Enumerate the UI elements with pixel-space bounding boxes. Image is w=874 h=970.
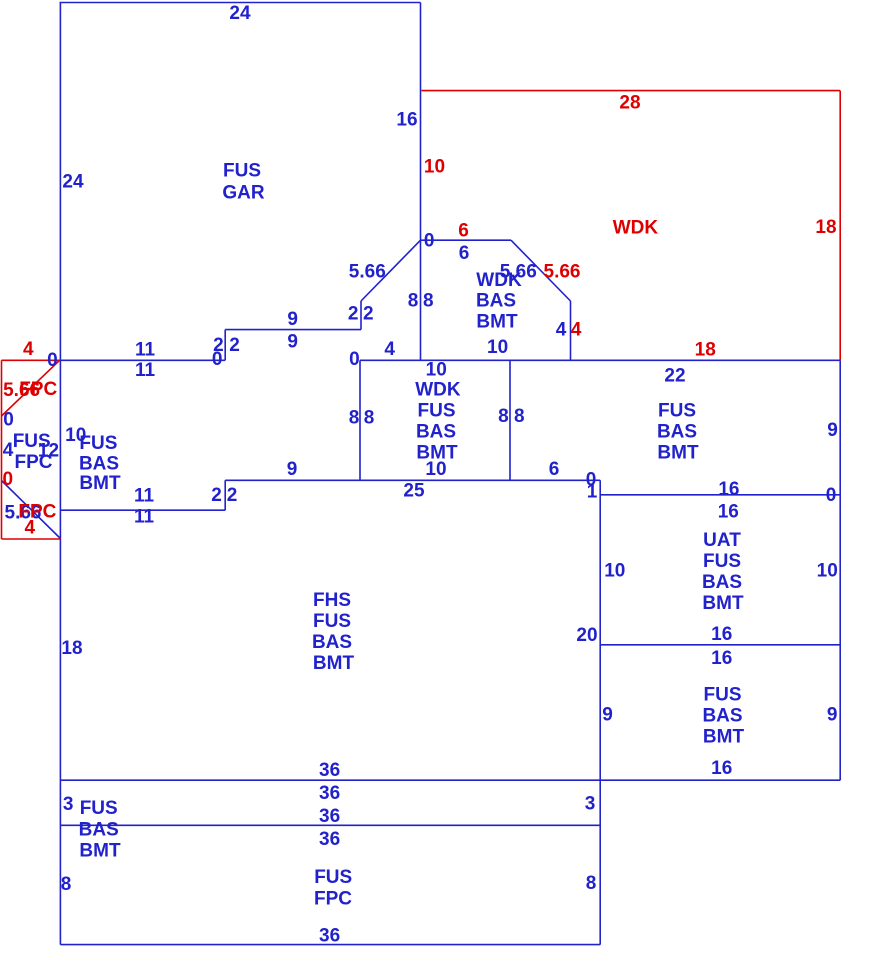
svg-text:2: 2 [363, 304, 374, 325]
svg-text:16: 16 [718, 502, 739, 523]
wire red fpc diagonal [2, 360, 60, 416]
svg-text:BMT: BMT [657, 443, 699, 464]
wire right main vertical [839, 360, 841, 780]
wire uat top horizontal [600, 494, 840, 496]
svg-text:0: 0 [826, 485, 837, 506]
wire garage right vertical [420, 3, 422, 361]
svg-text:8: 8 [514, 406, 525, 427]
svg-text:10: 10 [487, 337, 508, 358]
svg-text:0: 0 [212, 349, 223, 370]
svg-text:0: 0 [3, 410, 14, 431]
wire 11 step horizontal [60, 359, 225, 361]
svg-text:1: 1 [587, 482, 598, 503]
svg-text:BMT: BMT [79, 840, 121, 861]
svg-text:11: 11 [134, 506, 155, 527]
svg-text:8: 8 [586, 873, 597, 894]
svg-text:4: 4 [23, 339, 34, 360]
svg-text:BMT: BMT [313, 653, 355, 674]
svg-text:8: 8 [498, 406, 509, 427]
svg-text:9: 9 [602, 705, 613, 726]
svg-text:36: 36 [319, 760, 340, 781]
svg-text:2: 2 [211, 485, 222, 506]
svg-text:36: 36 [319, 829, 340, 850]
svg-text:FPC: FPC [15, 452, 53, 473]
svg-text:36: 36 [319, 926, 340, 947]
wire red fpc top [2, 359, 60, 361]
svg-text:8: 8 [364, 408, 375, 429]
svg-text:9: 9 [287, 459, 298, 480]
svg-text:10: 10 [425, 459, 446, 480]
svg-text:WDK: WDK [415, 380, 461, 401]
svg-text:4: 4 [571, 320, 582, 341]
wire red wdk right vertical [839, 91, 841, 361]
svg-text:5.66: 5.66 [544, 262, 581, 283]
svg-text:FUS: FUS [658, 400, 696, 421]
svg-text:FUS: FUS [313, 611, 351, 632]
svg-text:16: 16 [711, 758, 732, 779]
wire 9 step horizontal [225, 329, 361, 331]
svg-text:FUS: FUS [703, 551, 741, 572]
svg-text:2: 2 [348, 304, 359, 325]
svg-text:BMT: BMT [703, 727, 745, 748]
wire red fpc bottom [2, 538, 61, 540]
svg-text:FPC: FPC [19, 379, 57, 400]
svg-text:WDK: WDK [476, 270, 522, 291]
svg-text:4: 4 [3, 440, 14, 461]
svg-text:GAR: GAR [222, 183, 265, 204]
svg-text:BAS: BAS [312, 632, 352, 653]
svg-text:BMT: BMT [79, 473, 121, 494]
svg-text:6: 6 [458, 221, 469, 242]
svg-text:FUS: FUS [223, 161, 261, 182]
svg-text:0: 0 [424, 231, 435, 252]
svg-text:28: 28 [619, 93, 640, 114]
svg-text:36: 36 [319, 806, 340, 827]
svg-text:10: 10 [817, 560, 838, 581]
svg-text:9: 9 [827, 705, 838, 726]
svg-text:FUS: FUS [704, 684, 742, 705]
svg-text:0: 0 [47, 350, 58, 371]
wire fpc blue diagonal [2, 481, 61, 539]
svg-text:0: 0 [3, 469, 14, 490]
svg-text:9: 9 [287, 309, 298, 330]
wire red wdk top [422, 90, 841, 92]
svg-text:10: 10 [424, 157, 445, 178]
wire 2 lower step [224, 480, 226, 510]
svg-text:24: 24 [62, 172, 84, 193]
svg-text:22: 22 [664, 365, 685, 386]
svg-text:10: 10 [604, 560, 625, 581]
wire wdk deck right vertical [570, 301, 572, 360]
svg-text:BAS: BAS [416, 422, 456, 443]
svg-text:4: 4 [556, 320, 567, 341]
svg-text:5.66: 5.66 [349, 262, 386, 283]
svg-text:BAS: BAS [702, 572, 742, 593]
svg-text:11: 11 [134, 486, 155, 507]
svg-text:24: 24 [229, 3, 251, 24]
svg-text:UAT: UAT [703, 530, 741, 551]
svg-text:BAS: BAS [79, 819, 119, 840]
wire wdk deck top [421, 239, 512, 241]
svg-text:FPC: FPC [314, 888, 352, 909]
svg-text:16: 16 [711, 648, 732, 669]
svg-text:BAS: BAS [657, 421, 697, 442]
wire wdk box right vertical [509, 360, 511, 480]
svg-text:FUS: FUS [418, 401, 456, 422]
wire 2 step up left [224, 330, 226, 361]
wire wdk box left vertical [359, 360, 361, 480]
wire 5.66 diagonal right [511, 240, 571, 301]
svg-text:BAS: BAS [476, 291, 516, 312]
wire middle right vertical [599, 480, 601, 944]
svg-text:FUS: FUS [80, 798, 118, 819]
svg-text:2: 2 [229, 335, 240, 356]
svg-text:3: 3 [585, 794, 596, 815]
svg-text:25: 25 [403, 481, 425, 502]
svg-text:16: 16 [718, 479, 739, 500]
wire left main vertical [59, 2, 61, 945]
wire 5.66 diagonal left [361, 240, 421, 301]
svg-text:16: 16 [711, 624, 732, 645]
svg-text:FUS: FUS [314, 867, 352, 888]
svg-text:18: 18 [61, 638, 82, 659]
wire uat bottom horizontal [600, 644, 840, 646]
svg-text:8: 8 [61, 874, 72, 895]
svg-text:BMT: BMT [702, 593, 744, 614]
svg-text:BAS: BAS [702, 706, 742, 727]
svg-text:8: 8 [408, 290, 419, 311]
svg-text:20: 20 [576, 625, 597, 646]
wire 25 horizontal [225, 479, 600, 481]
svg-text:11: 11 [135, 340, 156, 361]
wire garage top [60, 2, 421, 4]
svg-text:6: 6 [459, 243, 470, 264]
wire 36 horizontal full [60, 779, 840, 781]
svg-text:9: 9 [287, 331, 298, 352]
svg-text:BAS: BAS [79, 454, 119, 475]
svg-text:18: 18 [695, 340, 716, 361]
svg-text:18: 18 [815, 217, 836, 238]
svg-text:4: 4 [25, 518, 36, 539]
wire bottom horizontal [60, 944, 600, 946]
svg-text:8: 8 [423, 290, 434, 311]
svg-text:3: 3 [63, 794, 74, 815]
svg-text:2: 2 [227, 485, 238, 506]
svg-text:WDK: WDK [613, 218, 659, 239]
svg-text:10: 10 [426, 360, 447, 381]
svg-text:9: 9 [827, 420, 838, 441]
svg-text:6: 6 [549, 459, 560, 480]
svg-text:11: 11 [135, 360, 156, 381]
wire 2 step up right [360, 301, 362, 330]
wire 36 second horizontal [60, 824, 600, 826]
svg-text:36: 36 [319, 783, 340, 804]
svg-text:8: 8 [349, 408, 360, 429]
wire main horizontal y360 [360, 359, 840, 361]
svg-text:FUS: FUS [79, 433, 117, 454]
svg-text:BMT: BMT [476, 312, 518, 333]
svg-text:4: 4 [384, 339, 395, 360]
svg-text:FHS: FHS [313, 590, 351, 611]
svg-text:0: 0 [349, 349, 360, 370]
svg-text:16: 16 [396, 110, 417, 131]
wire 11 lower horizontal [60, 509, 225, 511]
wire red fpc left vertical [1, 360, 3, 539]
